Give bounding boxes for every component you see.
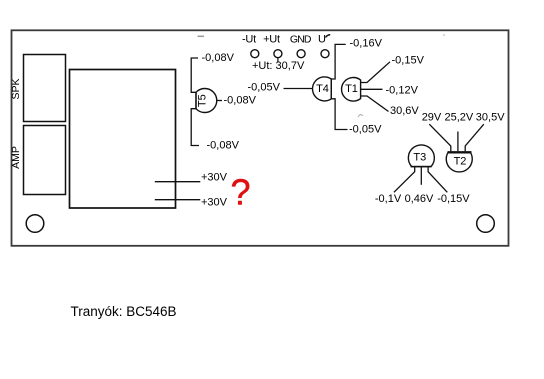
pad +Ut bbox=[274, 50, 282, 58]
svg-text:?: ? bbox=[230, 172, 250, 213]
transistor T1 bbox=[342, 77, 361, 101]
svg-text:+30V: +30V bbox=[201, 197, 228, 209]
svg-text:-0,05V: -0,05V bbox=[349, 124, 382, 136]
amplifier module outline bbox=[70, 70, 176, 209]
pad -Ut bbox=[251, 50, 259, 58]
svg-text:0,46V: 0,46V bbox=[405, 193, 434, 205]
wire T3 left lead bbox=[394, 167, 415, 193]
svg-text:30,5V: 30,5V bbox=[476, 112, 505, 124]
wire T1 bottom lead bbox=[361, 96, 389, 112]
svg-text:+Ut: +Ut bbox=[263, 34, 280, 46]
connector SPK bbox=[24, 55, 66, 122]
svg-text:-0,05V: -0,05V bbox=[248, 82, 281, 94]
wire T2 left lead bbox=[429, 124, 451, 151]
svg-text:AMP: AMP bbox=[10, 146, 22, 169]
T3 flat bottom bar bbox=[411, 166, 432, 168]
svg-text:25,2V: 25,2V bbox=[445, 112, 474, 124]
svg-text:30,6V: 30,6V bbox=[390, 105, 419, 117]
wire T2 middle lead bbox=[457, 132, 459, 152]
wire T3 middle lead bbox=[420, 167, 422, 185]
svg-text:-0,15V: -0,15V bbox=[392, 55, 425, 67]
svg-text:T5: T5 bbox=[197, 94, 209, 107]
svg-text:+Ut: 30,7V: +Ut: 30,7V bbox=[252, 60, 305, 72]
svg-text:T1: T1 bbox=[345, 83, 358, 95]
svg-text:Tranyók: BC546B: Tranyók: BC546B bbox=[71, 304, 177, 319]
wire T5 middle lead bbox=[217, 100, 222, 102]
svg-text:-0,08V: -0,08V bbox=[202, 52, 235, 64]
wire bracket of T4/T1 bbox=[331, 44, 347, 129]
svg-text:-0,16V: -0,16V bbox=[350, 38, 383, 50]
mounting hole left bbox=[26, 215, 44, 233]
connector AMP bbox=[24, 126, 66, 195]
svg-text:-0,08V: -0,08V bbox=[207, 139, 240, 151]
wire bracket of T5 (base/collector/emitter taps) bbox=[191, 58, 199, 146]
wire +30V upper bbox=[155, 181, 201, 183]
svg-text:-0,12V: -0,12V bbox=[386, 85, 419, 97]
speck dash bbox=[198, 35, 205, 37]
wire T1 middle lead bbox=[361, 88, 383, 90]
board outline bbox=[12, 30, 509, 246]
pad GND bbox=[297, 50, 305, 58]
svg-text:U: U bbox=[318, 34, 326, 46]
svg-text:-0,08V: -0,08V bbox=[224, 95, 257, 107]
svg-text:-Ut: -Ut bbox=[242, 34, 256, 46]
wire +30V lower bbox=[155, 199, 201, 201]
svg-text:-0,15V: -0,15V bbox=[437, 193, 470, 205]
T2 flat top bar bbox=[448, 151, 472, 153]
svg-text:T4: T4 bbox=[316, 83, 329, 95]
pad U~ bbox=[321, 50, 329, 58]
speck check near 30,6V bbox=[358, 115, 363, 118]
transistor T3 bbox=[408, 145, 434, 167]
transistor T4 bbox=[313, 77, 332, 101]
transistor T2 bbox=[446, 152, 472, 172]
wire T2 right lead bbox=[465, 124, 484, 151]
wire T4 left lead bbox=[284, 88, 313, 90]
speck faint bbox=[443, 34, 445, 36]
svg-text:T3: T3 bbox=[413, 152, 426, 164]
svg-text:GND: GND bbox=[290, 34, 312, 46]
svg-text:29V: 29V bbox=[422, 112, 442, 124]
transistor T5 bbox=[196, 89, 217, 113]
svg-text:T2: T2 bbox=[454, 155, 467, 167]
wire leader from +Ut pad bbox=[277, 58, 279, 63]
svg-text:SPK: SPK bbox=[10, 78, 22, 99]
mounting hole right bbox=[477, 215, 495, 233]
wire T3 right lead bbox=[428, 167, 447, 193]
svg-text:-0,1V: -0,1V bbox=[375, 193, 402, 205]
svg-text:+30V: +30V bbox=[201, 172, 228, 184]
wire T1 top lead bbox=[361, 62, 390, 83]
